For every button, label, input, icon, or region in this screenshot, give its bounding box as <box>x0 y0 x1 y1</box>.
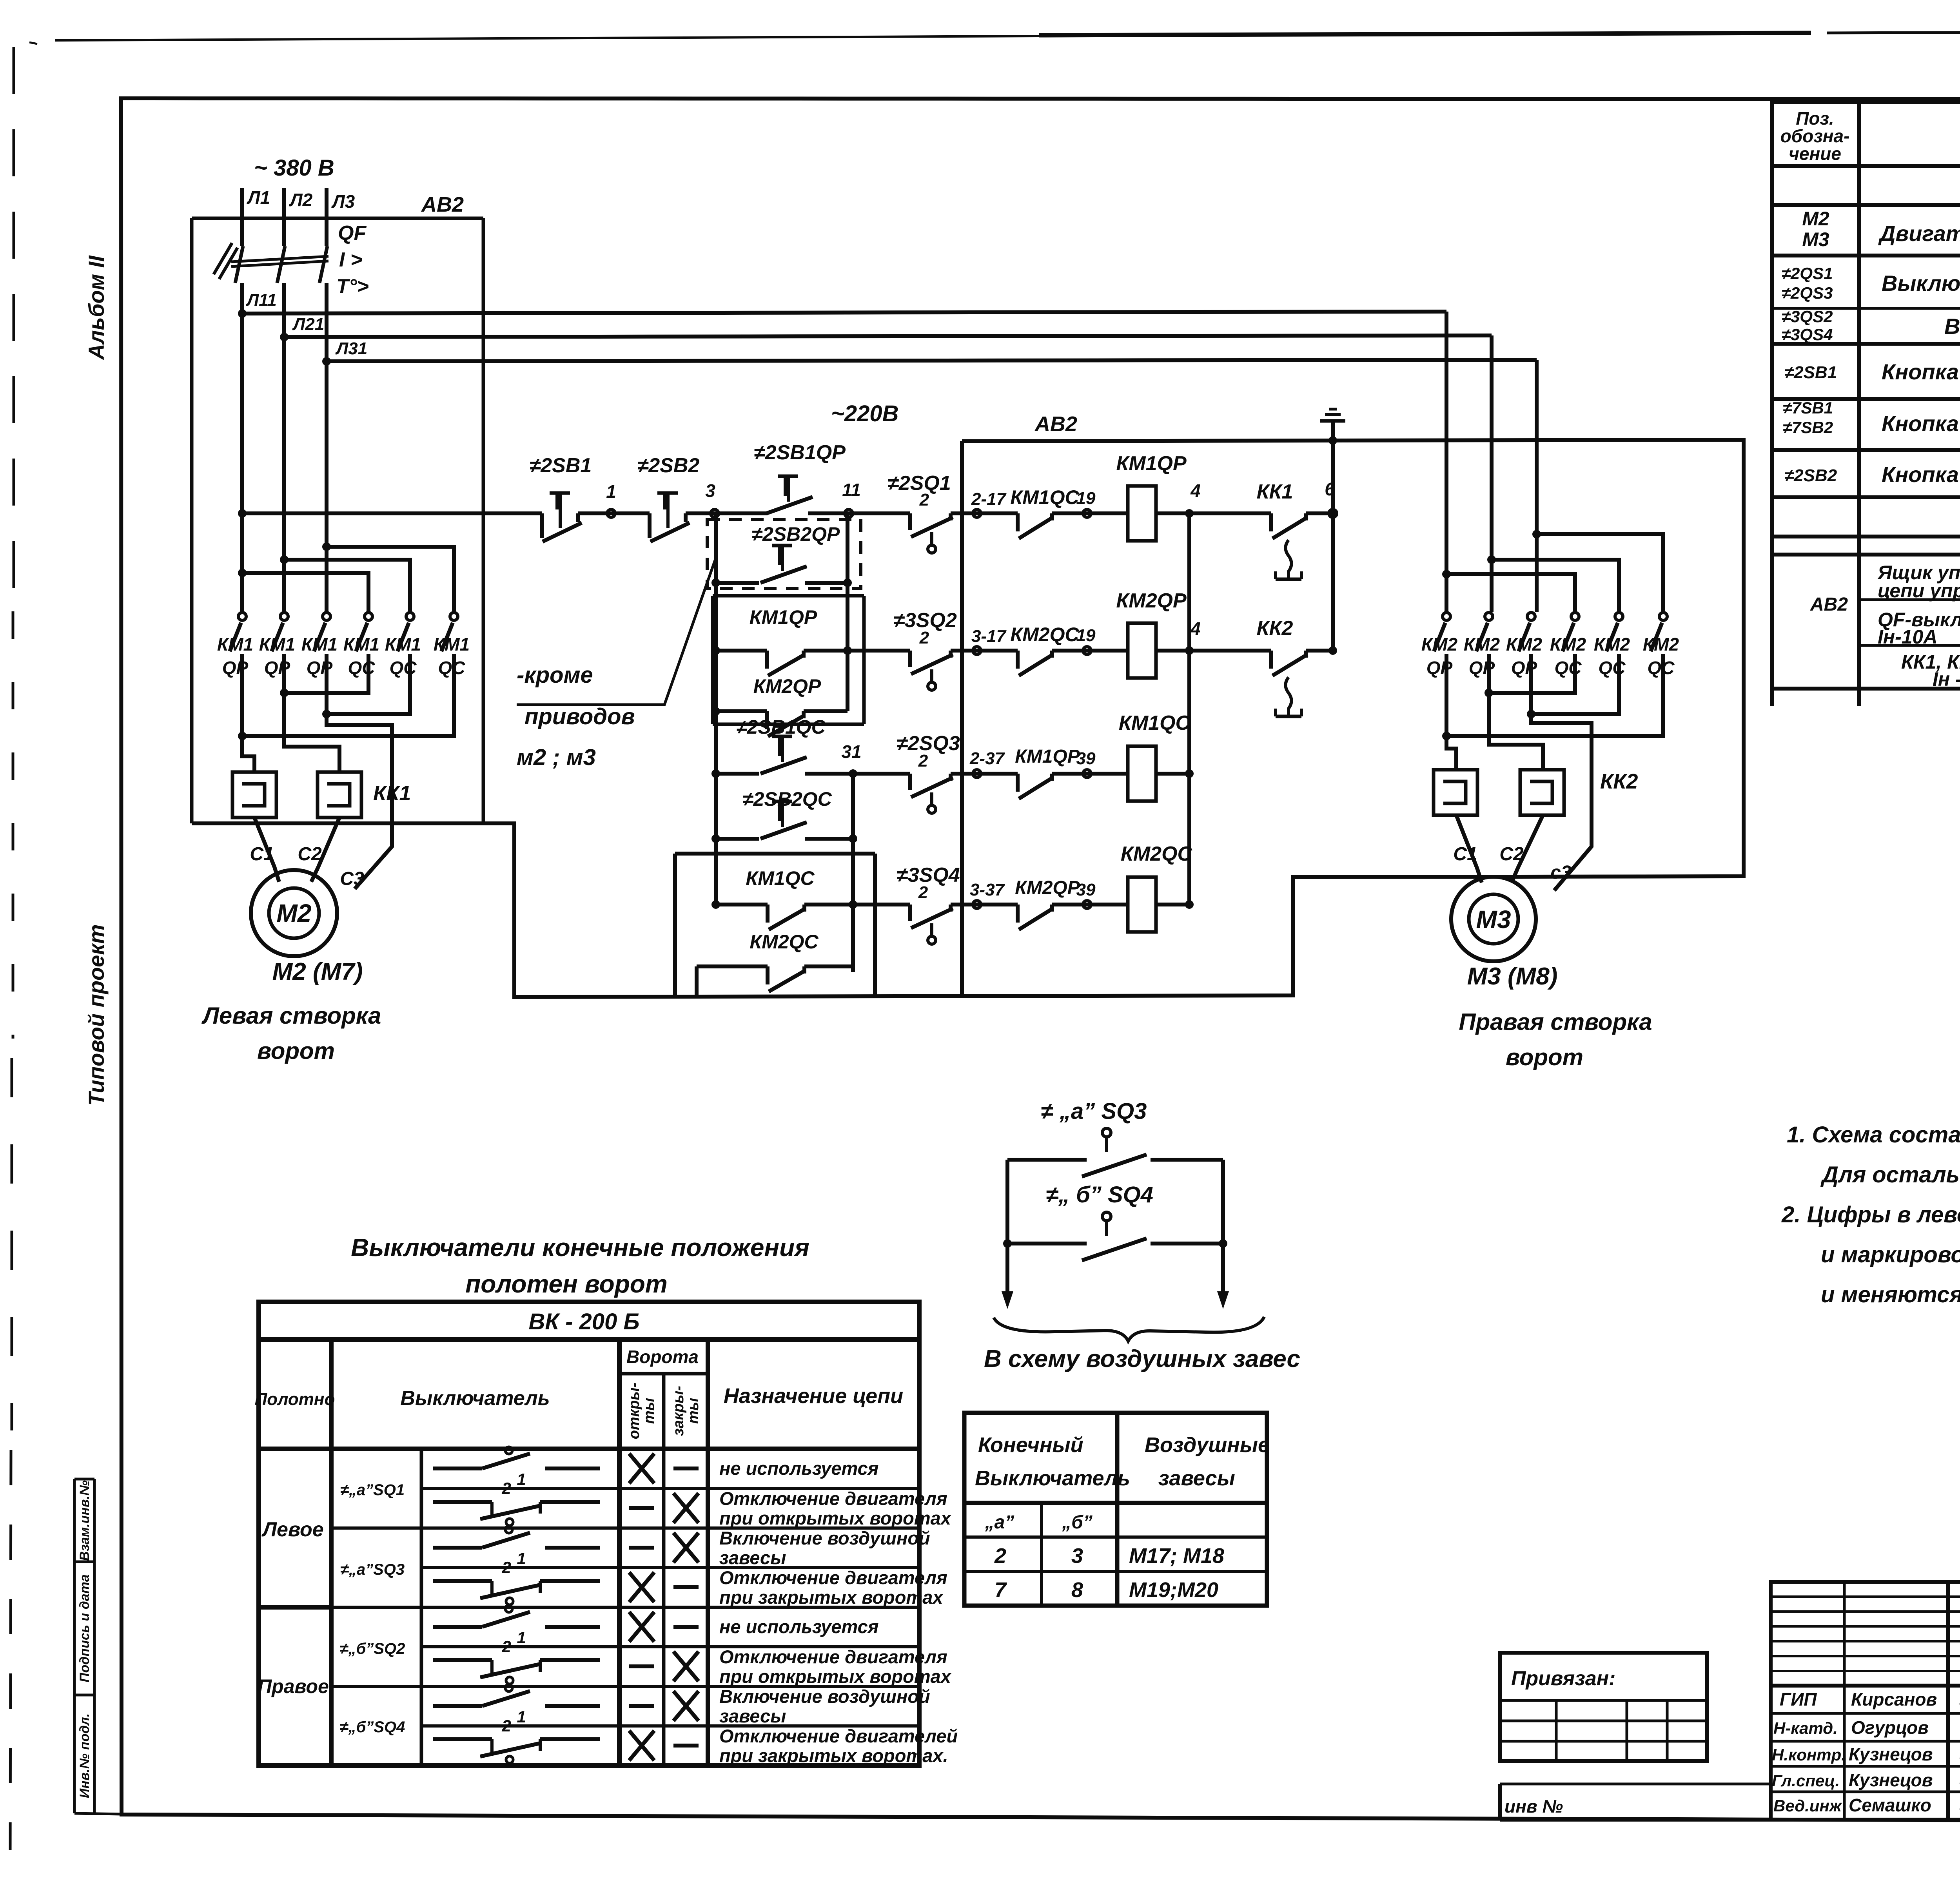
svg-text:8: 8 <box>1071 1578 1083 1602</box>
svg-text:Л31: Л31 <box>335 339 367 358</box>
svg-text:Кузнецов: Кузнецов <box>1849 1770 1933 1790</box>
svg-text:≠3QS4: ≠3QS4 <box>1782 325 1833 344</box>
svg-text:QС: QС <box>348 658 376 678</box>
svg-text:11: 11 <box>842 480 861 500</box>
svg-text:чение: чение <box>1789 143 1841 164</box>
svg-text:Альбом II: Альбом II <box>84 255 109 361</box>
svg-text:Для остальных приводов схема а: Для остальных приводов схема аналогична <box>1820 1162 1960 1187</box>
svg-text:Назначение цепи: Назначение цепи <box>724 1384 903 1408</box>
svg-text:ты: ты <box>641 1398 657 1424</box>
svg-text:завесы: завесы <box>719 1547 786 1568</box>
svg-text:В схему воздушных завес: В схему воздушных завес <box>984 1345 1300 1372</box>
svg-text:1: 1 <box>517 1470 526 1488</box>
svg-text:ВК - 200 Б: ВК - 200 Б <box>528 1309 639 1334</box>
svg-text:QС: QС <box>1648 658 1675 678</box>
svg-text:≠2SB2: ≠2SB2 <box>637 454 700 477</box>
svg-text:ворот: ворот <box>1506 1044 1583 1070</box>
svg-text:Л3: Л3 <box>331 191 355 212</box>
svg-text:I >: I > <box>339 248 362 271</box>
svg-text:КМ1QР: КМ1QР <box>1116 452 1187 475</box>
svg-text:Iн - 3,2А: Iн - 3,2А <box>1933 668 1960 690</box>
svg-text:Правое: Правое <box>258 1675 329 1697</box>
svg-text:КМ1QС: КМ1QС <box>1010 486 1079 508</box>
svg-text:≠2SB1: ≠2SB1 <box>1784 363 1837 382</box>
svg-text:≠3SQ4: ≠3SQ4 <box>897 864 960 886</box>
svg-text:2: 2 <box>918 751 928 770</box>
svg-text:закры-: закры- <box>670 1386 687 1436</box>
svg-text:Включение воздушной: Включение воздушной <box>719 1528 930 1548</box>
svg-text:2: 2 <box>501 1558 511 1577</box>
svg-text:АВ2: АВ2 <box>421 193 464 216</box>
svg-text:при открытых воротах: при открытых воротах <box>719 1666 952 1687</box>
svg-text:ты: ты <box>685 1398 702 1424</box>
svg-text:Огурцов: Огурцов <box>1851 1717 1929 1738</box>
svg-text:QС: QС <box>390 658 417 678</box>
svg-text:≠„б”SQ4: ≠„б”SQ4 <box>340 1719 405 1736</box>
svg-text:≠2SB1: ≠2SB1 <box>530 454 592 477</box>
svg-text:1: 1 <box>517 1549 526 1568</box>
svg-text:~ 380 В: ~ 380 В <box>254 155 334 181</box>
svg-text:Гл.спец.: Гл.спец. <box>1772 1771 1840 1790</box>
svg-text:2: 2 <box>918 883 928 902</box>
svg-text:3-17: 3-17 <box>971 627 1007 646</box>
svg-text:Н-катд.: Н-катд. <box>1773 1719 1838 1737</box>
svg-text:АВ2: АВ2 <box>1810 594 1848 615</box>
svg-text:31: 31 <box>841 741 861 762</box>
svg-text:≠7SB2: ≠7SB2 <box>1783 418 1833 437</box>
svg-text:ворот: ворот <box>257 1038 335 1064</box>
svg-text:Кнопка управления ПКЕ222-2У2: Кнопка управления ПКЕ222-2У2 <box>1882 462 1960 487</box>
svg-text:Отключение двигателя: Отключение двигателя <box>719 1567 947 1588</box>
svg-text:Левое: Левое <box>261 1518 323 1541</box>
svg-text:2: 2 <box>919 490 929 509</box>
svg-text:Выключатель: Выключатель <box>975 1467 1130 1490</box>
svg-text:Кузнецов: Кузнецов <box>1849 1744 1933 1764</box>
svg-text:19: 19 <box>1076 489 1096 508</box>
svg-text:М17; М18: М17; М18 <box>1129 1544 1224 1568</box>
svg-text:КМ2QС: КМ2QС <box>750 931 818 953</box>
svg-text:при закрытых воротах: при закрытых воротах <box>719 1587 944 1608</box>
svg-text:3: 3 <box>705 480 715 501</box>
svg-text:Выключатель: Выключатель <box>400 1387 550 1410</box>
svg-text:с3: с3 <box>1550 862 1572 883</box>
svg-text:приводов: приводов <box>524 704 635 729</box>
svg-text:полотен ворот: полотен ворот <box>465 1270 668 1298</box>
svg-text:≠2QS1: ≠2QS1 <box>1782 264 1833 283</box>
svg-text:≠ „а” SQ3: ≠ „а” SQ3 <box>1041 1099 1147 1124</box>
svg-text:при закрытых воротах.: при закрытых воротах. <box>719 1745 948 1766</box>
svg-text:С1: С1 <box>250 844 274 865</box>
svg-text:≠2SQ3: ≠2SQ3 <box>897 732 960 755</box>
svg-text:2. Цифры в левой части обознач: 2. Цифры в левой части обозначений аппар… <box>1781 1202 1960 1227</box>
svg-text:≠2SB1QС: ≠2SB1QС <box>736 716 826 738</box>
svg-text:КМ1QР: КМ1QР <box>1015 746 1080 767</box>
svg-text:Вед.инж: Вед.инж <box>1773 1796 1842 1815</box>
svg-text:QР: QР <box>1511 658 1537 678</box>
svg-text:QР: QР <box>307 658 333 678</box>
svg-text:и маркировок цепей обозначают: и маркировок цепей обозначают номера при… <box>1821 1242 1960 1267</box>
svg-text:Семашко: Семашко <box>1849 1795 1931 1815</box>
svg-text:Iн-10А: Iн-10А <box>1878 626 1937 648</box>
svg-text:Левая створка: Левая створка <box>201 1002 381 1029</box>
svg-text:QР: QР <box>222 658 249 678</box>
svg-text:КМ1: КМ1 <box>217 634 253 654</box>
svg-text:Полотно: Полотно <box>255 1390 335 1409</box>
svg-text:2-17: 2-17 <box>971 489 1007 509</box>
svg-text:Отключение двигателей: Отключение двигателей <box>719 1726 958 1746</box>
svg-text:≠„б”SQ2: ≠„б”SQ2 <box>340 1640 405 1657</box>
svg-text:Т°>: Т°> <box>336 275 369 298</box>
svg-text:М19;М20: М19;М20 <box>1129 1578 1218 1602</box>
svg-text:КМ2: КМ2 <box>1506 634 1543 654</box>
svg-text:ГИП: ГИП <box>1780 1689 1817 1709</box>
svg-text:19: 19 <box>1076 626 1096 645</box>
svg-text:≠7SB1: ≠7SB1 <box>1783 399 1833 417</box>
svg-text:КМ2QР: КМ2QР <box>1116 589 1187 612</box>
svg-text:Типовой проект: Типовой проект <box>84 924 109 1106</box>
svg-text:39: 39 <box>1076 749 1096 768</box>
svg-text:~220В: ~220В <box>831 401 899 426</box>
svg-text:≠2QS3: ≠2QS3 <box>1782 284 1833 303</box>
svg-text:АВ2: АВ2 <box>1034 412 1077 436</box>
svg-text:ВК 200 Б: ВК 200 Б <box>1944 314 1960 339</box>
svg-text:QF: QF <box>338 222 367 245</box>
svg-text:Привязан:: Привязан: <box>1511 1667 1615 1690</box>
svg-text:1: 1 <box>606 481 616 502</box>
svg-text:1. Схема составлена для приво: 1. Схема составлена для приводов М2;М3 <box>1787 1122 1960 1148</box>
svg-text:4: 4 <box>1190 618 1201 639</box>
svg-text:6: 6 <box>1325 479 1335 499</box>
svg-text:Кнопка управления ПКЕ222-3У2: Кнопка управления ПКЕ222-3У2 <box>1882 411 1960 436</box>
svg-text:откры-: откры- <box>626 1383 642 1439</box>
svg-text:КМ1QС: КМ1QС <box>1119 712 1191 734</box>
svg-text:Воздушные: Воздушные <box>1145 1433 1270 1457</box>
svg-text:КМ1QР: КМ1QР <box>750 606 817 628</box>
svg-text:Н.контр.: Н.контр. <box>1772 1746 1846 1764</box>
svg-text:≠„а”SQ1: ≠„а”SQ1 <box>340 1481 405 1499</box>
svg-text:КМ2QС: КМ2QС <box>1121 843 1193 865</box>
svg-text:≠2SB2QС: ≠2SB2QС <box>742 788 832 810</box>
svg-text:при открытых воротах: при открытых воротах <box>719 1508 952 1528</box>
svg-text:КМ1: КМ1 <box>385 634 421 654</box>
svg-text:QС: QС <box>438 658 466 678</box>
svg-text:и меняются соответственно с их: и меняются соответственно с их номерами. <box>1821 1282 1960 1307</box>
svg-text:Отключение двигателя: Отключение двигателя <box>719 1646 947 1667</box>
svg-text:КМ2QС: КМ2QС <box>1010 624 1079 645</box>
svg-text:4: 4 <box>1190 480 1201 501</box>
svg-text:„б”: „б” <box>1062 1512 1093 1533</box>
svg-text:КМ2: КМ2 <box>1421 634 1458 654</box>
svg-text:Л1: Л1 <box>247 187 270 208</box>
svg-text:≠„а”SQ3: ≠„а”SQ3 <box>340 1561 405 1578</box>
svg-text:С2: С2 <box>1499 844 1524 865</box>
svg-text:КМ2QР: КМ2QР <box>1015 877 1080 898</box>
svg-text:Включение воздушной: Включение воздушной <box>719 1686 930 1707</box>
svg-text:QР: QР <box>1469 658 1495 678</box>
svg-text:Л11: Л11 <box>246 290 277 310</box>
svg-text:Л2: Л2 <box>289 190 313 210</box>
svg-text:КМ2: КМ2 <box>1643 634 1679 654</box>
svg-text:2: 2 <box>994 1544 1006 1568</box>
svg-text:М2 (М7): М2 (М7) <box>272 958 363 985</box>
svg-text:не используется: не используется <box>719 1616 878 1637</box>
svg-text:2: 2 <box>919 628 929 647</box>
svg-text:КМ1QС: КМ1QС <box>746 867 815 889</box>
svg-text:Кирсанов: Кирсанов <box>1851 1689 1937 1709</box>
svg-text:2: 2 <box>501 1637 511 1656</box>
svg-text:≠„ б” SQ4: ≠„ б” SQ4 <box>1046 1182 1153 1207</box>
svg-text:С3: С3 <box>340 868 364 889</box>
svg-text:„а”: „а” <box>985 1512 1014 1533</box>
svg-text:39: 39 <box>1076 880 1096 899</box>
svg-text:М2: М2 <box>1802 208 1829 230</box>
svg-text:КМ1: КМ1 <box>343 634 379 654</box>
svg-text:М2: М2 <box>277 899 312 927</box>
svg-text:КМ2QР: КМ2QР <box>753 675 821 697</box>
svg-text:Л21: Л21 <box>292 315 324 334</box>
svg-text:Кнопка управления ПКЕ222-3У2: Кнопка управления ПКЕ222-3У2 <box>1882 359 1960 384</box>
svg-text:-кроме: -кроме <box>517 662 593 688</box>
svg-text:КМ2: КМ2 <box>1550 634 1586 654</box>
svg-text:2-37: 2-37 <box>969 749 1005 768</box>
svg-text:Взам.инв.№: Взам.инв.№ <box>77 1480 92 1561</box>
svg-text:Двигатель 4А80А4 1,1кВт; 2,76: Двигатель 4А80А4 1,1кВт; 2,76А <box>1878 221 1960 246</box>
svg-text:3-37: 3-37 <box>970 880 1005 899</box>
svg-text:QР: QР <box>1426 658 1453 678</box>
svg-text:≠2SB2QР: ≠2SB2QР <box>752 523 840 545</box>
svg-text:≠2SB1QР: ≠2SB1QР <box>754 441 846 464</box>
svg-text:Правая створка: Правая створка <box>1459 1009 1652 1035</box>
svg-text:Ворота: Ворота <box>626 1347 699 1367</box>
svg-text:1: 1 <box>517 1628 526 1647</box>
svg-text:М3 (М8): М3 (М8) <box>1467 963 1558 990</box>
svg-text:≠3QS2: ≠3QS2 <box>1782 307 1833 326</box>
svg-text:≠2SB2: ≠2SB2 <box>1784 466 1837 485</box>
svg-text:1: 1 <box>517 1708 526 1726</box>
svg-text:КМ1: КМ1 <box>259 634 295 654</box>
svg-text:Выключатели конечные положени: Выключатели конечные положения <box>351 1233 809 1262</box>
svg-text:QС: QС <box>1599 658 1626 678</box>
svg-text:КК1: КК1 <box>1257 480 1293 503</box>
svg-text:Подпись и дата: Подпись и дата <box>77 1574 92 1682</box>
svg-text:М3: М3 <box>1802 228 1829 250</box>
svg-text:Выключатель конечный: Выключатель конечный <box>1882 271 1960 295</box>
svg-text:м2 ; м3: м2 ; м3 <box>517 745 596 770</box>
svg-text:КК2: КК2 <box>1257 617 1293 640</box>
svg-text:КМ2: КМ2 <box>1594 634 1630 654</box>
svg-text:С2: С2 <box>298 844 322 865</box>
svg-text:завесы: завесы <box>1158 1467 1235 1490</box>
svg-text:КК2: КК2 <box>1600 770 1638 793</box>
svg-text:7: 7 <box>995 1578 1007 1602</box>
svg-text:QС: QС <box>1555 658 1582 678</box>
svg-text:3: 3 <box>1071 1544 1083 1568</box>
svg-text:КК1: КК1 <box>373 781 411 805</box>
svg-text:2: 2 <box>501 1479 511 1497</box>
svg-text:С1: С1 <box>1453 844 1477 865</box>
svg-text:не используется: не используется <box>719 1458 878 1479</box>
svg-text:QР: QР <box>264 658 290 678</box>
svg-text:инв №: инв № <box>1504 1796 1563 1816</box>
svg-text:цепи управления ~ 220 В: цепи управления ~ 220 В <box>1878 580 1960 602</box>
svg-text:М3: М3 <box>1476 905 1511 934</box>
svg-text:КМ2: КМ2 <box>1464 634 1500 654</box>
svg-text:Инв.№ подл.: Инв.№ подл. <box>77 1713 92 1798</box>
svg-text:КМ1: КМ1 <box>301 634 338 654</box>
svg-text:Отключение двигателя: Отключение двигателя <box>719 1488 947 1509</box>
svg-text:завесы: завесы <box>719 1706 786 1726</box>
svg-text:КМ1: КМ1 <box>434 634 470 654</box>
svg-text:2: 2 <box>501 1717 511 1735</box>
svg-text:Конечный: Конечный <box>978 1433 1083 1457</box>
